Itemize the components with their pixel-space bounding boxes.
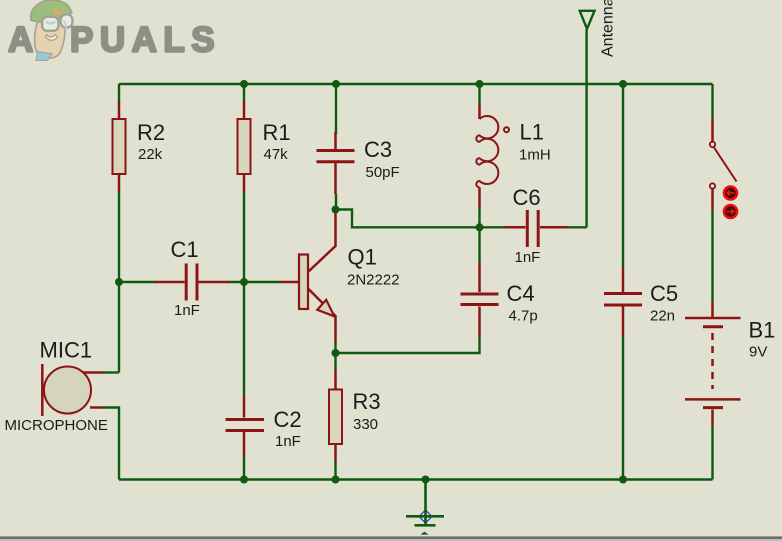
switch toggle button up <box>724 187 737 200</box>
svg-text:C5: C5 <box>650 281 678 306</box>
wire C5 bottom <box>622 336 624 480</box>
capacitor C5 <box>604 267 642 336</box>
wire collector node to tank <box>336 210 506 228</box>
junction top rail C5 <box>619 80 627 88</box>
transistor Q1 <box>280 211 336 342</box>
wire antenna feed <box>585 29 587 228</box>
junction tank node <box>476 223 484 231</box>
antenna <box>580 11 595 29</box>
wire C1 right <box>227 281 244 283</box>
junction ground rail C5 <box>619 476 627 484</box>
resistor R2 <box>113 102 126 192</box>
svg-text:MIC1: MIC1 <box>40 338 93 363</box>
inductor L1 <box>476 103 509 208</box>
junction collector node <box>332 206 340 214</box>
microphone MIC1 <box>42 364 103 416</box>
svg-text:B1: B1 <box>749 317 776 342</box>
junction base R1 <box>240 278 248 286</box>
wire microphone top lead <box>103 371 119 373</box>
junction ground rail R3 <box>332 476 340 484</box>
junction top rail L1 <box>476 80 484 88</box>
capacitor C1 <box>156 264 228 301</box>
svg-text:C6: C6 <box>513 185 541 210</box>
svg-text:1nF: 1nF <box>275 433 301 450</box>
wire R1 branch lower <box>243 455 245 480</box>
svg-text:PUALS: PUALS <box>70 21 221 60</box>
svg-text:A: A <box>8 21 33 60</box>
svg-text:MICROPHONE: MICROPHONE <box>5 417 108 434</box>
svg-text:9V: 9V <box>749 344 767 361</box>
wire L1 top <box>478 84 480 103</box>
junction emitter node <box>332 349 340 357</box>
svg-text:22n: 22n <box>650 308 675 325</box>
svg-text:C1: C1 <box>171 237 199 262</box>
wire emitter to R3 <box>334 353 336 370</box>
capacitor C2 <box>226 396 265 455</box>
svg-text:C3: C3 <box>364 137 392 162</box>
svg-text:2N2222: 2N2222 <box>347 272 400 289</box>
junction ground rail C2 <box>240 476 248 484</box>
wire VCC top rail <box>119 83 713 85</box>
wire C4 top <box>478 227 480 262</box>
wire battery bottom <box>711 426 713 480</box>
wire R1 branch upper <box>243 84 245 103</box>
wire microphone bottom lead <box>103 408 119 480</box>
resistor R1 <box>238 102 251 192</box>
wire C5 top <box>622 84 624 267</box>
wire ground rail <box>119 478 713 480</box>
svg-text:C4: C4 <box>507 281 535 306</box>
svg-text:1nF: 1nF <box>174 302 200 319</box>
switch toggle button down <box>724 205 737 218</box>
ground origin marker <box>419 509 433 525</box>
wire emitter node <box>336 337 480 353</box>
wire C3 top <box>335 84 337 134</box>
junction base left <box>115 278 123 286</box>
wire R1 branch middle <box>243 191 245 396</box>
svg-text:L1: L1 <box>520 120 544 145</box>
junction ground rail GND <box>422 476 430 484</box>
capacitor C4 <box>461 262 499 337</box>
junction top rail C3 <box>332 80 340 88</box>
svg-text:R1: R1 <box>263 120 291 145</box>
window bottom edge <box>0 536 782 539</box>
wire switch to battery <box>711 210 713 302</box>
capacitor C6 <box>505 210 567 247</box>
wire R3 bottom <box>334 461 336 480</box>
svg-text:1nF: 1nF <box>515 249 541 266</box>
svg-text:Q1: Q1 <box>348 245 377 270</box>
ground <box>406 480 444 535</box>
svg-text:22k: 22k <box>138 146 163 163</box>
wire switch top <box>711 84 713 119</box>
svg-text:50pF: 50pF <box>366 164 400 181</box>
wire left branch lower <box>118 191 120 373</box>
switch <box>710 119 737 210</box>
svg-text:C2: C2 <box>274 407 302 432</box>
svg-text:1mH: 1mH <box>519 147 551 164</box>
svg-text:R2: R2 <box>137 120 165 145</box>
svg-text:4.7p: 4.7p <box>509 308 538 325</box>
svg-text:47k: 47k <box>264 146 289 163</box>
svg-text:Antenna: Antenna <box>600 0 617 57</box>
junction top rail R1 <box>240 80 248 88</box>
logo watermark APPUALS <box>8 0 221 60</box>
capacitor C3 <box>317 132 355 194</box>
wire C1 left <box>119 281 157 283</box>
wire C3 bottom to collector node <box>335 194 337 210</box>
svg-text:330: 330 <box>353 416 378 433</box>
wire L1 bottom <box>478 208 480 227</box>
wire left branch upper <box>118 84 120 103</box>
svg-text:R3: R3 <box>353 389 381 414</box>
resistor R3 <box>329 370 342 461</box>
wire C6 right to antenna <box>562 226 587 228</box>
battery B1 <box>685 302 741 426</box>
wire base node <box>244 281 280 283</box>
